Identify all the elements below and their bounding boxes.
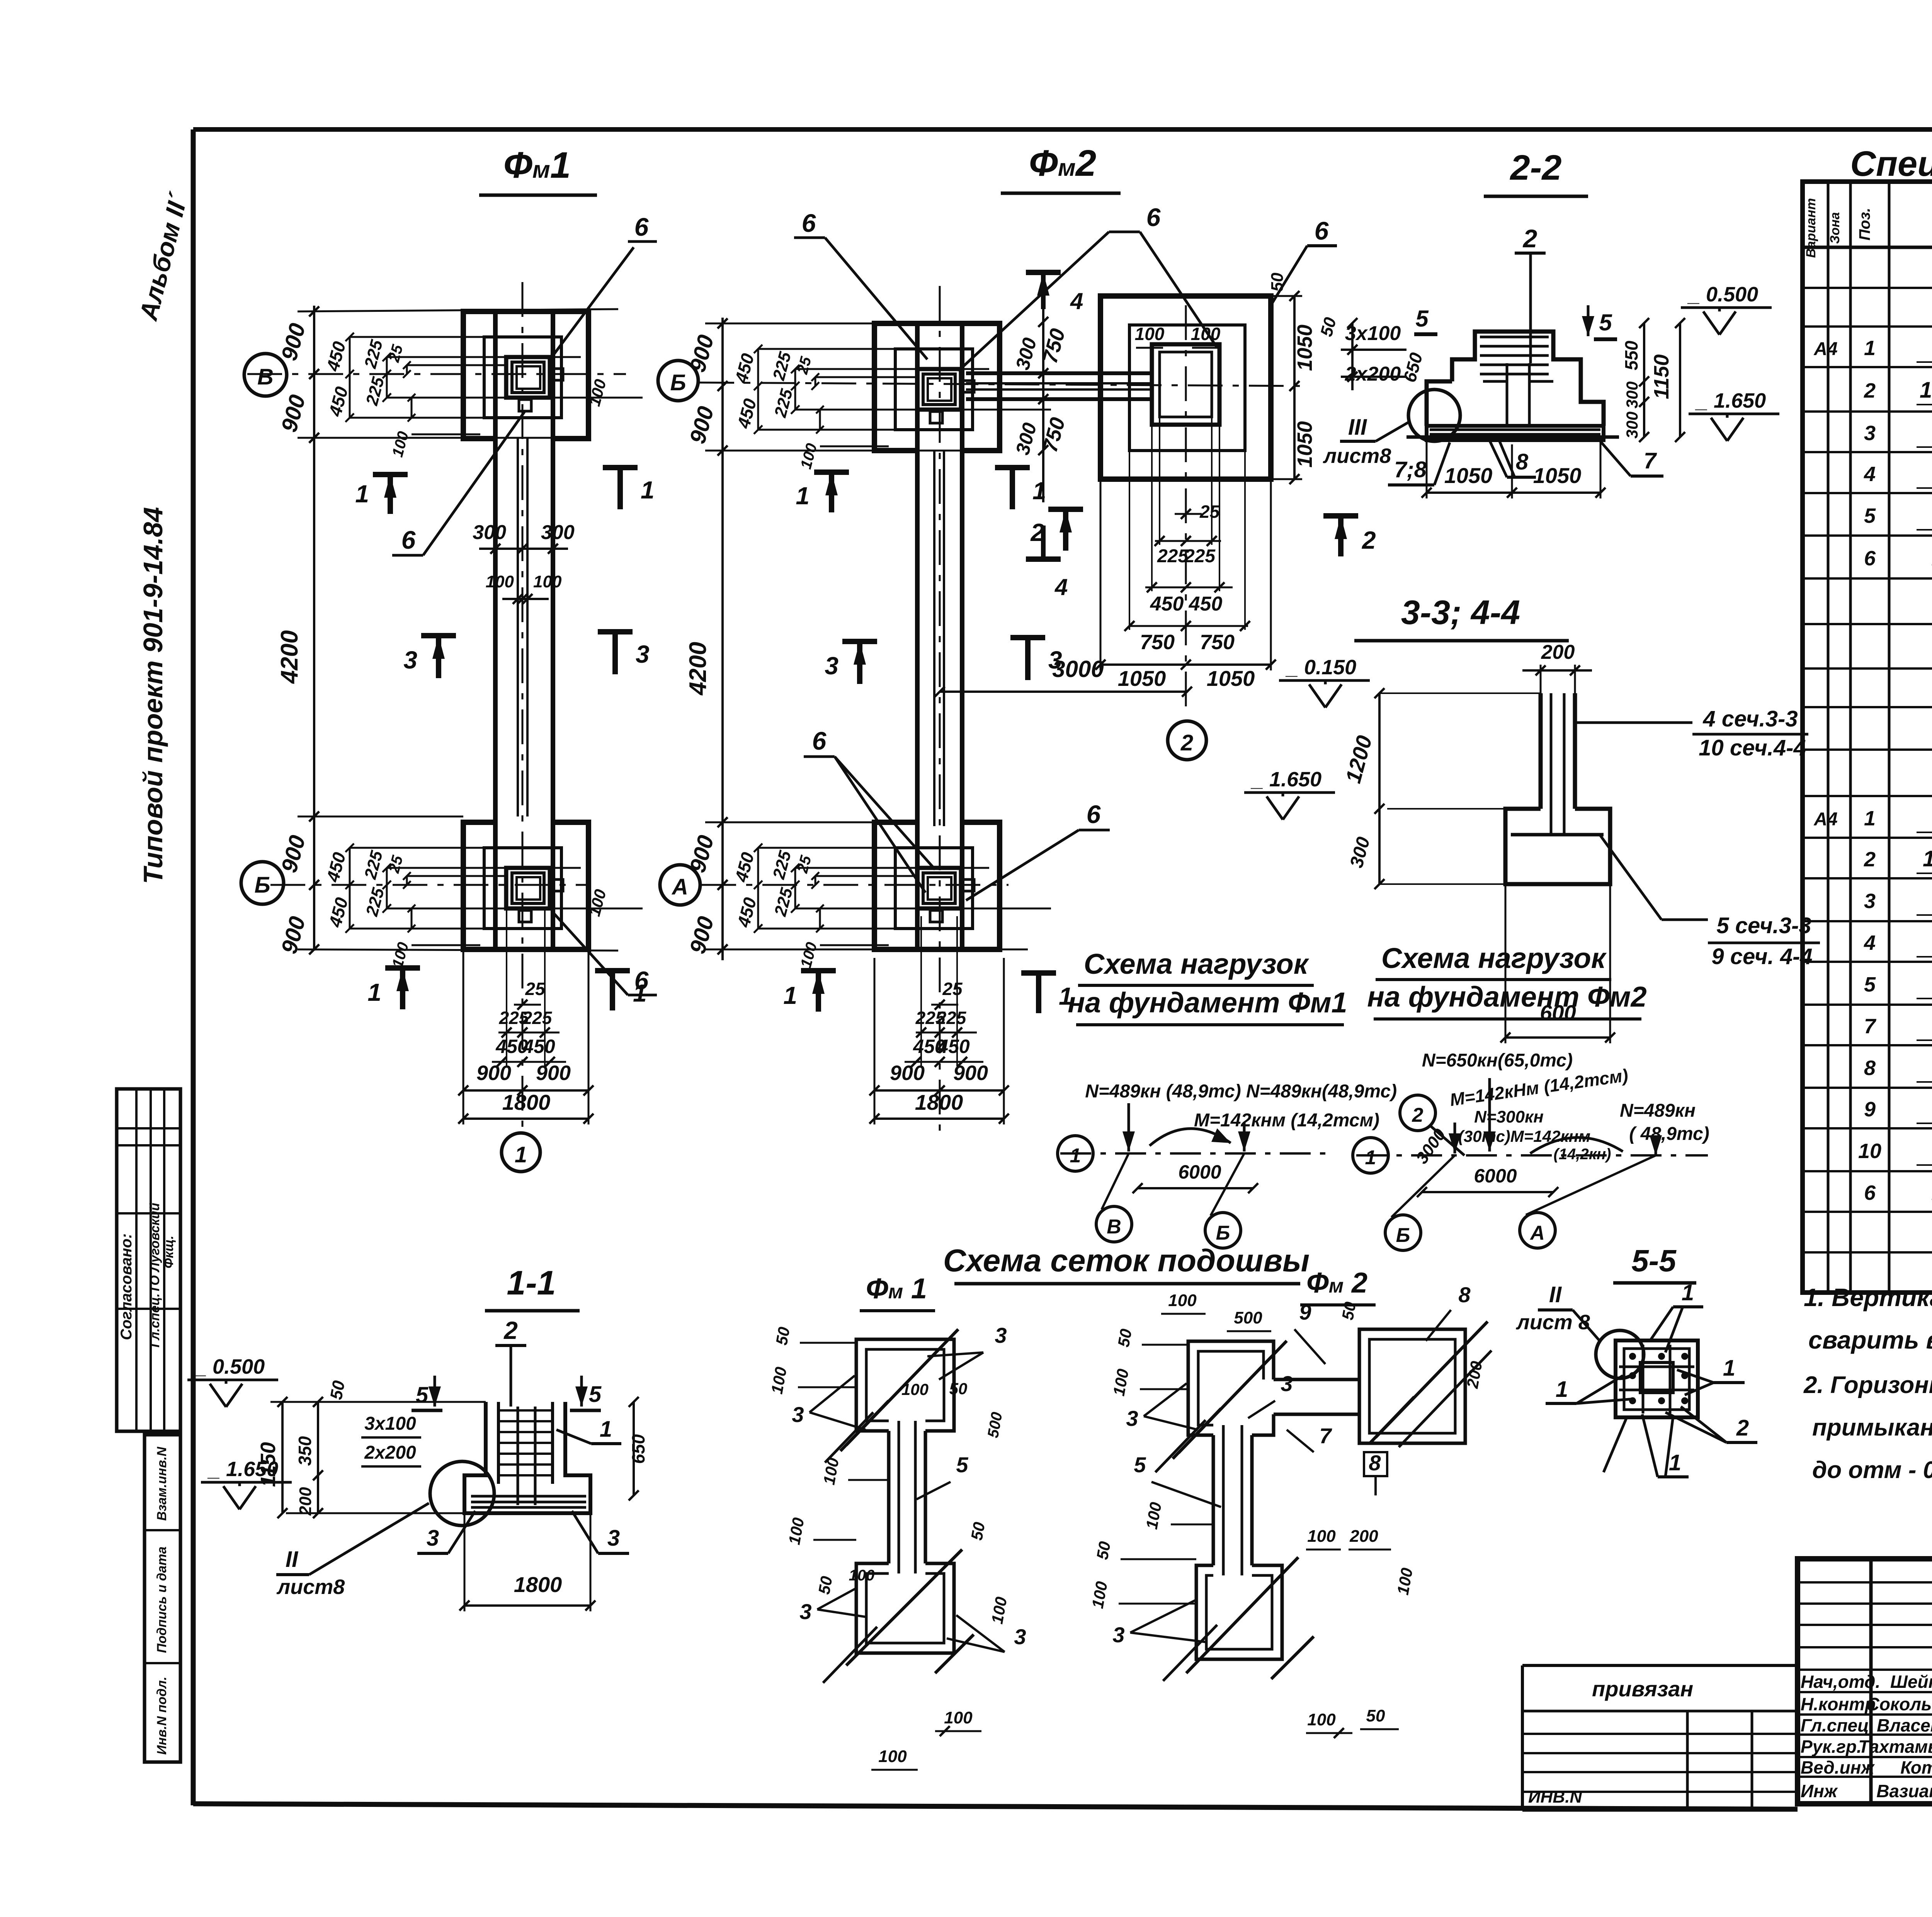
svg-text:100: 100 — [878, 1747, 907, 1766]
svg-text:200: 200 — [1541, 641, 1575, 663]
dimension cluster inside Фм2 left pads — [731, 345, 1051, 471]
svg-text:100: 100 — [944, 1708, 973, 1727]
svg-text:примыкания к стаканам фунда: примыкания к стаканам фундаментов обреза… — [1812, 1414, 1932, 1441]
svg-text:на фундамент Фм2: на фундамент Фм2 — [1367, 981, 1646, 1013]
svg-text:_ 1.650: _ 1.650 — [1695, 389, 1766, 412]
svg-text:6: 6 — [1087, 800, 1101, 828]
title block signature rows — [1801, 1672, 1932, 1801]
svg-text:Схема нагрузок: Схема нагрузок — [1381, 942, 1607, 974]
svg-text:1: 1 — [1864, 807, 1876, 830]
svg-text:Схема нагрузок: Схема нагрузок — [1084, 948, 1310, 980]
svg-text:10: 10 — [1858, 1140, 1881, 1163]
svg-text:200: 200 — [296, 1487, 315, 1516]
svg-text:50: 50 — [1338, 1300, 1359, 1321]
axis circle Б (Фм1 bottom) — [241, 862, 284, 904]
svg-text:7;8: 7;8 — [1394, 457, 1427, 482]
leader labels 6 on plan Фм2 — [794, 203, 1217, 900]
axis circle Б (Фм2 top) — [658, 361, 698, 401]
svg-text:6: 6 — [1864, 1181, 1876, 1204]
svg-text:1: 1 — [1682, 1280, 1694, 1305]
mesh diagram Фм2 — [1088, 1283, 1492, 1738]
svg-text:6: 6 — [1146, 203, 1161, 231]
foundation plan Фм2 (right pad on axis 2) — [966, 296, 1271, 707]
title Схема сеток подошвы — [943, 1243, 1310, 1284]
svg-text:1800: 1800 — [502, 1090, 551, 1114]
svg-text:II: II — [1549, 1282, 1562, 1307]
table header texts — [1804, 196, 1932, 258]
svg-text:450: 450 — [1150, 593, 1184, 615]
svg-text:6: 6 — [634, 213, 649, 241]
svg-text:3: 3 — [427, 1526, 439, 1551]
svg-text:3: 3 — [1864, 890, 1876, 913]
title Схема нагрузок на фундамент Фм2 — [1367, 942, 1646, 1019]
dimension chain 300/750 between Фм2 pads — [1012, 270, 1083, 600]
svg-text:Рук.гр.: Рук.гр. — [1801, 1737, 1862, 1757]
svg-text:3: 3 — [1864, 422, 1876, 445]
svg-text:Гл.спец.ТО Луговский: Гл.спец.ТО Луговский — [148, 1203, 162, 1348]
svg-text:А: А — [671, 874, 688, 900]
svg-text:2: 2 — [1030, 519, 1044, 546]
svg-text:1050: 1050 — [1207, 666, 1255, 691]
svg-text:1: 1 — [600, 1417, 612, 1442]
svg-text:3: 3 — [1126, 1406, 1138, 1431]
svg-text:Тахтамышев: Тахтамышев — [1858, 1737, 1932, 1757]
svg-text:Н.контр: Н.контр — [1801, 1694, 1876, 1714]
svg-text:3: 3 — [1112, 1623, 1124, 1647]
svg-text:9 сеч. 4-4: 9 сеч. 4-4 — [1711, 944, 1812, 969]
svg-text:50: 50 — [327, 1379, 349, 1401]
svg-text:Б: Б — [1396, 1224, 1410, 1247]
svg-text:лист8: лист8 — [276, 1575, 345, 1599]
title 5-5 — [1613, 1243, 1696, 1283]
svg-text:1.412-1/77 вып 3-020: 1.412-1/77 вып 3-020 — [1923, 846, 1932, 871]
svg-text:1: 1 — [1032, 477, 1046, 505]
svg-text:3: 3 — [1014, 1624, 1026, 1649]
svg-text:50: 50 — [1093, 1540, 1114, 1561]
svg-text:650: 650 — [628, 1434, 648, 1464]
svg-text:9: 9 — [1299, 1300, 1311, 1324]
svg-text:6: 6 — [1864, 547, 1876, 570]
svg-text:100: 100 — [901, 1380, 929, 1398]
svg-text:1: 1 — [796, 482, 810, 510]
strip dimensions 300/300 and 100/100 — [473, 521, 575, 604]
svg-text:1.412-1/77 вып. 3-020: 1.412-1/77 вып. 3-020 — [1920, 378, 1932, 403]
section 2-2 drawing — [1406, 332, 1619, 441]
svg-text:25: 25 — [525, 979, 546, 999]
svg-text:6000: 6000 — [1474, 1165, 1517, 1187]
svg-text:100: 100 — [1307, 1710, 1336, 1729]
svg-text:2х200: 2х200 — [364, 1442, 416, 1463]
svg-text:3: 3 — [403, 646, 417, 674]
svg-text:100: 100 — [1307, 1527, 1336, 1546]
svg-text:225: 225 — [522, 1008, 553, 1028]
svg-text:привязан: привязан — [1592, 1677, 1693, 1701]
svg-text:300: 300 — [1623, 381, 1641, 408]
svg-text:1-1: 1-1 — [507, 1264, 556, 1302]
elevation marks -0.150 / -1.650 near axis 2 — [1244, 656, 1370, 820]
svg-text:200: 200 — [1349, 1527, 1378, 1546]
svg-text:Подпись и дата: Подпись и дата — [155, 1546, 169, 1653]
svg-text:Шейка: Шейка — [1890, 1672, 1932, 1692]
subtitle Фм2 (mesh) — [1300, 1267, 1376, 1305]
svg-text:А4: А4 — [1813, 809, 1837, 830]
title block frame — [1798, 1559, 1932, 1804]
svg-text:А4: А4 — [1813, 339, 1837, 359]
notes text — [1803, 1283, 1932, 1483]
section 1-1 drawing — [430, 1317, 590, 1526]
svg-text:6000: 6000 — [1178, 1161, 1221, 1183]
svg-text:450: 450 — [937, 1036, 970, 1057]
svg-text:5: 5 — [956, 1453, 968, 1477]
svg-text:50: 50 — [815, 1575, 836, 1596]
svg-text:Вариант: Вариант — [1804, 198, 1818, 258]
dimension chain 900/900/4200 left of Фм2 — [685, 318, 1028, 960]
svg-text:100: 100 — [1191, 324, 1221, 344]
dimension cluster Фм1 top pad (450/225/25/100) — [322, 333, 643, 459]
foundation plan Фм1 — [247, 282, 626, 1128]
svg-text:N=489кн (48,9тс): N=489кн (48,9тс) — [1085, 1081, 1241, 1102]
section 1-1 labels and dimensions — [187, 1355, 648, 1611]
привязан stamp boxes — [1522, 1665, 1798, 1810]
svg-text:4: 4 — [1054, 574, 1068, 600]
svg-text:Б: Б — [254, 873, 270, 898]
svg-text:50: 50 — [1366, 1706, 1385, 1725]
svg-text:Схема сеток подошвы: Схема сеток подошвы — [943, 1243, 1310, 1278]
svg-text:2: 2 — [1180, 730, 1193, 755]
svg-text:1: 1 — [1556, 1377, 1568, 1402]
section marks 1-1 / 3-3 on plan Фм1 — [355, 468, 654, 1010]
svg-text:2: 2 — [503, 1317, 518, 1344]
svg-text:Б: Б — [670, 370, 686, 395]
svg-text:225: 225 — [1184, 546, 1216, 566]
svg-text:450: 450 — [1189, 593, 1223, 615]
svg-text:1: 1 — [641, 476, 655, 504]
svg-text:4200: 4200 — [685, 642, 711, 696]
svg-text:750: 750 — [1200, 631, 1235, 654]
svg-text:1: 1 — [1669, 1450, 1681, 1475]
svg-text:5: 5 — [589, 1382, 602, 1407]
svg-text:50: 50 — [1114, 1327, 1135, 1348]
svg-text:550: 550 — [1621, 340, 1641, 370]
svg-text:3: 3 — [1281, 1371, 1293, 1396]
svg-text:50: 50 — [949, 1379, 968, 1398]
svg-text:300: 300 — [473, 521, 506, 544]
svg-text:100: 100 — [486, 572, 514, 591]
svg-text:6: 6 — [1315, 216, 1329, 245]
title Схема нагрузок на фундамент Фм1 — [1068, 948, 1347, 1025]
svg-text:1050: 1050 — [1293, 325, 1316, 371]
svg-text:300: 300 — [1623, 412, 1641, 439]
mesh diagram Фм1 — [767, 1323, 1026, 1770]
svg-text:лист8: лист8 — [1323, 444, 1391, 468]
svg-text:до отм - 0.150: до отм - 0.150 — [1812, 1457, 1932, 1483]
svg-text:2: 2 — [1412, 1104, 1423, 1126]
svg-text:Нач,отд.: Нач,отд. — [1801, 1672, 1880, 1692]
dimension chains under Фм2 bottom pad — [869, 916, 1009, 1124]
svg-text:А: А — [1529, 1222, 1545, 1244]
svg-text:5: 5 — [1134, 1453, 1146, 1477]
svg-text:3-3; 4-4: 3-3; 4-4 — [1401, 593, 1520, 631]
svg-text:8: 8 — [1516, 449, 1529, 475]
svg-text:Гл.спец: Гл.спец — [1801, 1715, 1869, 1735]
load scheme Фм2 — [1353, 1050, 1709, 1250]
title 3-3;4-4 — [1354, 593, 1569, 641]
svg-text:В: В — [1107, 1216, 1121, 1238]
svg-text:2: 2 — [1362, 526, 1376, 554]
svg-text:1150: 1150 — [1650, 354, 1673, 399]
svg-text:2: 2 — [1864, 379, 1876, 402]
svg-text:Власенко: Власенко — [1877, 1715, 1932, 1735]
svg-text:2. Горизонтальные стержни се: 2. Горизонтальные стержни сеток поз „4” … — [1803, 1372, 1932, 1398]
svg-text:7: 7 — [1319, 1424, 1332, 1448]
svg-text:5-5: 5-5 — [1631, 1243, 1677, 1278]
svg-text:1: 1 — [783, 981, 797, 1009]
svg-text:3: 3 — [799, 1599, 811, 1624]
svg-text:1: 1 — [367, 978, 381, 1006]
margin text Альбом II — [134, 189, 193, 324]
svg-text:100: 100 — [1135, 324, 1165, 344]
svg-text:_ 0.500: _ 0.500 — [194, 1355, 265, 1378]
svg-text:1: 1 — [1723, 1356, 1735, 1381]
svg-text:3: 3 — [995, 1323, 1007, 1347]
title 1-1 — [485, 1264, 580, 1311]
svg-text:100: 100 — [849, 1567, 875, 1584]
margin stamp box Взам.инв / Подпись и дата / Инв.№ подл — [145, 1435, 180, 1762]
svg-text:25: 25 — [1199, 502, 1220, 522]
svg-text:Б: Б — [1216, 1222, 1230, 1244]
svg-text:N=650кн(65,0тс): N=650кн(65,0тс) — [1422, 1050, 1573, 1071]
svg-text:лист 8: лист 8 — [1515, 1311, 1590, 1334]
svg-text:3: 3 — [825, 652, 838, 680]
svg-text:Взам.инв.N: Взам.инв.N — [155, 1446, 169, 1521]
section 3-3/4-4 drawing — [1341, 641, 1820, 1043]
svg-text:8: 8 — [1864, 1056, 1876, 1080]
svg-text:1050: 1050 — [1444, 463, 1493, 488]
svg-text:5: 5 — [1599, 310, 1612, 335]
axis circle 2 below Фм2 right pad — [1168, 721, 1206, 760]
svg-text:II: II — [286, 1547, 299, 1572]
specification table grid — [1803, 182, 1932, 1293]
svg-text:9: 9 — [1864, 1098, 1876, 1121]
dimension 3000 between axes 1 and 2 — [935, 656, 1192, 697]
svg-text:8: 8 — [1458, 1283, 1471, 1307]
subtitle Фм1 (mesh) — [860, 1272, 935, 1311]
leader labels 6 on plan Фм1 — [392, 213, 657, 995]
svg-text:Согласовано:: Согласовано: — [118, 1233, 135, 1340]
svg-text:_ 0.150: _ 0.150 — [1285, 656, 1356, 679]
axis circle А (Фм2 bottom) — [660, 865, 700, 905]
axis circle В — [244, 354, 287, 396]
svg-text:6: 6 — [634, 966, 649, 995]
table title Спецификация к фундаментам — [1850, 144, 1932, 184]
label 100 right of Фм1 stakans — [585, 377, 610, 918]
svg-text:900: 900 — [953, 1061, 988, 1085]
axis circle 1 below Фм1 — [502, 1133, 540, 1172]
svg-text:1: 1 — [515, 1142, 527, 1167]
svg-text:4: 4 — [1070, 288, 1083, 314]
svg-text:Спецификация к фундаментам: Спецификация к фундаментам — [1850, 144, 1932, 184]
svg-text:450: 450 — [522, 1036, 555, 1057]
title Фм2 — [1001, 143, 1121, 193]
svg-text:8: 8 — [1369, 1451, 1381, 1475]
svg-text:2: 2 — [1864, 848, 1876, 871]
svg-text:50: 50 — [968, 1521, 988, 1541]
svg-text:100: 100 — [1168, 1291, 1197, 1310]
svg-text:350: 350 — [295, 1436, 315, 1466]
dimensions 100/100 inside right pad — [1135, 324, 1221, 348]
svg-text:Инж: Инж — [1801, 1781, 1838, 1801]
svg-text:4: 4 — [1864, 463, 1876, 486]
svg-text:1050: 1050 — [1118, 666, 1166, 691]
svg-text:5: 5 — [416, 1383, 429, 1408]
svg-text:3х100: 3х100 — [364, 1414, 416, 1434]
section marks on plan Фм2 — [783, 468, 1083, 1013]
svg-text:1050: 1050 — [1293, 421, 1316, 468]
svg-text:Вед.инж: Вед.инж — [1801, 1757, 1875, 1778]
section 2-2 labels and dimensions — [1271, 216, 1779, 556]
svg-text:(30тс)М=142кнм: (30тс)М=142кнм — [1458, 1127, 1590, 1145]
svg-text:1050: 1050 — [1533, 463, 1582, 488]
svg-text:6: 6 — [812, 726, 827, 755]
svg-text:2: 2 — [1522, 224, 1537, 253]
svg-text:III: III — [1348, 415, 1367, 440]
title 2-2 — [1484, 148, 1588, 196]
svg-text:сварить в каждом пересечени: сварить в каждом пересечении. — [1808, 1326, 1932, 1354]
svg-text:3: 3 — [1048, 646, 1062, 674]
svg-text:100: 100 — [533, 572, 562, 591]
margin stamp box Согласовано — [117, 1089, 180, 1431]
svg-text:900: 900 — [890, 1061, 925, 1085]
svg-text:_ 1.650: _ 1.650 — [1250, 768, 1321, 791]
svg-text:5: 5 — [1864, 504, 1876, 527]
svg-text:( 48,9тс): ( 48,9тс) — [1629, 1124, 1709, 1144]
svg-text:225: 225 — [936, 1008, 967, 1028]
svg-text:1800: 1800 — [915, 1090, 963, 1114]
svg-text:7: 7 — [1644, 448, 1657, 473]
svg-text:6: 6 — [802, 209, 816, 237]
dimension chains under Фм1 bottom pad — [458, 910, 594, 1124]
svg-text:10 сеч.4-4: 10 сеч.4-4 — [1699, 735, 1806, 760]
svg-text:на фундамент Фм1: на фундамент Фм1 — [1068, 987, 1347, 1019]
svg-text:2-2: 2-2 — [1510, 148, 1562, 187]
svg-text:1: 1 — [1365, 1146, 1376, 1169]
svg-text:Фкщ.: Фкщ. — [162, 1235, 176, 1268]
svg-text:3: 3 — [792, 1402, 804, 1427]
svg-text:5: 5 — [1864, 973, 1876, 996]
svg-text:2: 2 — [1736, 1415, 1749, 1441]
title Фм1 — [479, 145, 597, 195]
svg-text:Зона: Зона — [1828, 212, 1842, 244]
svg-text:1: 1 — [1070, 1145, 1081, 1167]
svg-text:М=142кнм (14,2тсм): М=142кнм (14,2тсм) — [1194, 1110, 1379, 1131]
svg-text:Типовой проект 901-9-14.84: Типовой проект 901-9-14.84 — [138, 507, 168, 884]
svg-text:50: 50 — [772, 1325, 793, 1346]
dimension chain 900/900/4200 left of Фм1 — [276, 306, 618, 956]
detail 5-5 drawing — [1515, 1280, 1757, 1477]
foundation plan Фм2 (left part) — [699, 286, 1310, 1140]
svg-text:Сокольская: Сокольская — [1867, 1694, 1932, 1714]
dimension chains under Фм2 right pad — [1095, 417, 1276, 691]
svg-text:1. Вертикальную и горизонтальн: 1. Вертикальную и горизонтальную арматур… — [1804, 1283, 1932, 1311]
svg-text:25: 25 — [942, 979, 963, 999]
svg-text:В: В — [257, 364, 274, 390]
svg-text:4 сеч.3-3: 4 сеч.3-3 — [1702, 706, 1798, 731]
svg-text:1: 1 — [355, 480, 369, 508]
svg-text:4200: 4200 — [276, 630, 303, 684]
svg-text:500: 500 — [1234, 1308, 1262, 1327]
margin text Типовой проект 901-9-14.84 — [138, 507, 168, 884]
svg-text:Кот: Кот — [1900, 1757, 1932, 1778]
svg-text:3: 3 — [636, 640, 650, 668]
svg-text:4: 4 — [1864, 931, 1876, 954]
svg-text:Вазианов: Вазианов — [1876, 1781, 1932, 1801]
svg-text:Инв.N подл.: Инв.N подл. — [155, 1677, 169, 1755]
svg-text:300: 300 — [541, 521, 575, 544]
svg-text:7: 7 — [1864, 1015, 1877, 1038]
svg-text:_ 0.500: _ 0.500 — [1687, 283, 1758, 306]
svg-text:900: 900 — [536, 1061, 571, 1085]
svg-text:ИНВ.N: ИНВ.N — [1528, 1788, 1582, 1806]
svg-text:1: 1 — [1864, 337, 1876, 360]
dimension cluster Фм1 bottom pad — [322, 844, 643, 970]
svg-text:3: 3 — [607, 1526, 620, 1551]
svg-text:1800: 1800 — [514, 1572, 562, 1597]
svg-text:6: 6 — [401, 526, 416, 554]
svg-text:N=489кн: N=489кн — [1620, 1101, 1696, 1121]
svg-text:N=300кн: N=300кн — [1474, 1107, 1544, 1126]
svg-text:Поз.: Поз. — [1856, 208, 1873, 241]
svg-text:750: 750 — [1140, 631, 1175, 654]
load scheme Фм1 — [1058, 1081, 1397, 1248]
svg-text:1150: 1150 — [257, 1442, 280, 1487]
svg-text:N=489кн(48,9тс): N=489кн(48,9тс) — [1246, 1081, 1397, 1102]
dimension chain 1050/1050 right of Фм2 pad — [1268, 272, 1316, 484]
svg-text:5: 5 — [1415, 306, 1429, 332]
svg-text:5 сеч.3-3: 5 сеч.3-3 — [1716, 913, 1811, 938]
